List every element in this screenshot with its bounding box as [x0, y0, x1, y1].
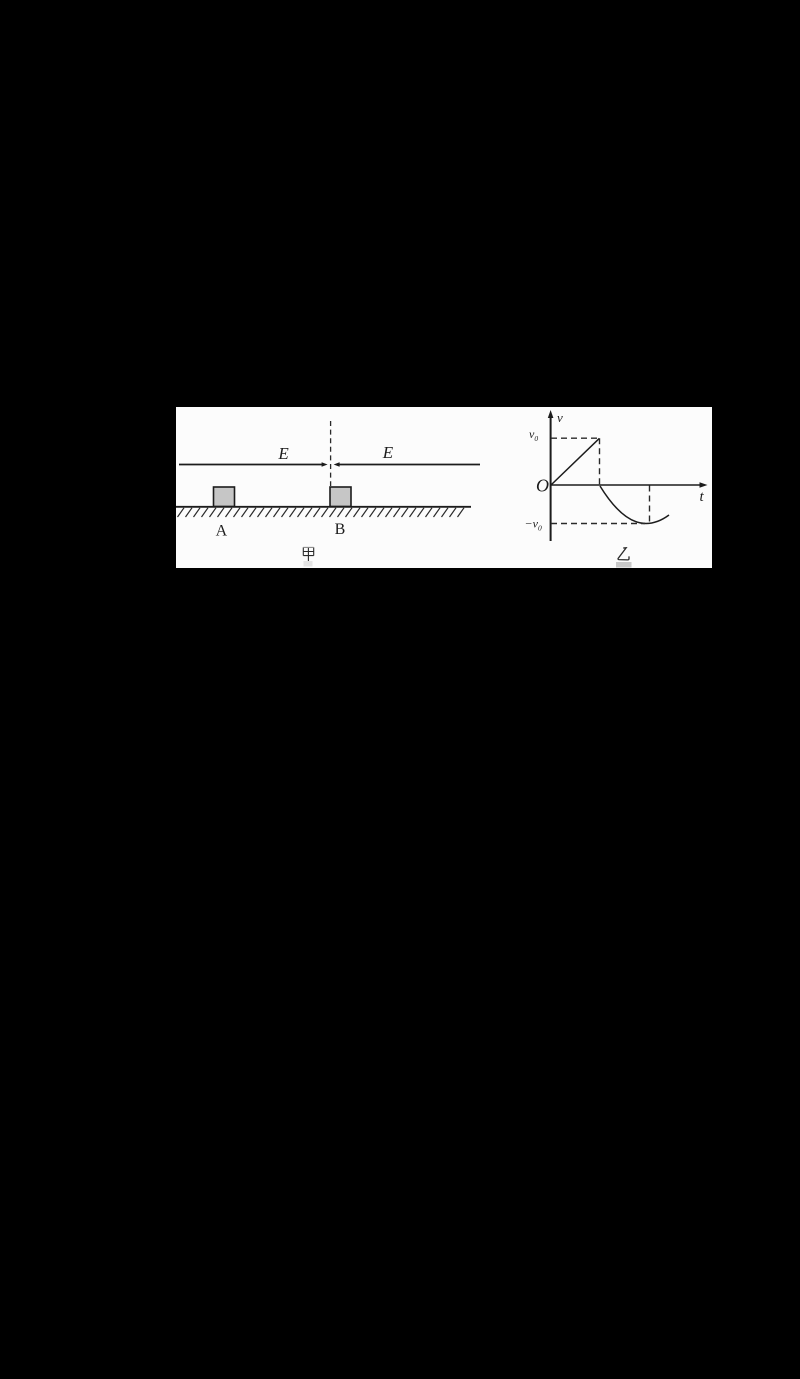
svg-text:v: v [557, 410, 563, 425]
white figure panel [176, 407, 712, 568]
rising velocity line [551, 438, 599, 485]
dashed line t1 vertical [599, 438, 601, 485]
ground line [176, 506, 471, 508]
svg-text:t: t [700, 489, 705, 505]
svg-text:E: E [382, 443, 394, 462]
block A [214, 487, 235, 507]
caption jia shadow [304, 561, 313, 567]
svg-text:O: O [536, 476, 549, 496]
curved velocity segment below axis [600, 486, 669, 524]
field line left segment with arrowhead pointing right [179, 462, 328, 466]
dashed line -v0 horizontal [551, 523, 645, 525]
field line right segment with arrowhead pointing left [334, 462, 480, 466]
svg-text:v0: v0 [529, 427, 538, 443]
svg-text:−v0: −v0 [525, 517, 542, 533]
svg-text:E: E [277, 444, 289, 463]
caption yi (乙) drawn [618, 548, 629, 560]
t axis (horizontal) with arrowhead [551, 482, 708, 488]
dashed centre line [330, 421, 332, 486]
svg-text:A: A [216, 522, 228, 539]
block B [330, 487, 351, 507]
caption yi shadow [616, 562, 632, 568]
svg-text:B: B [335, 521, 346, 538]
ground hatching [178, 508, 465, 517]
dashed line v0 horizontal [551, 437, 600, 439]
caption jia (甲) drawn [303, 547, 313, 561]
dashed line t2 vertical [649, 486, 651, 524]
v axis (vertical) with arrowhead [548, 410, 554, 541]
